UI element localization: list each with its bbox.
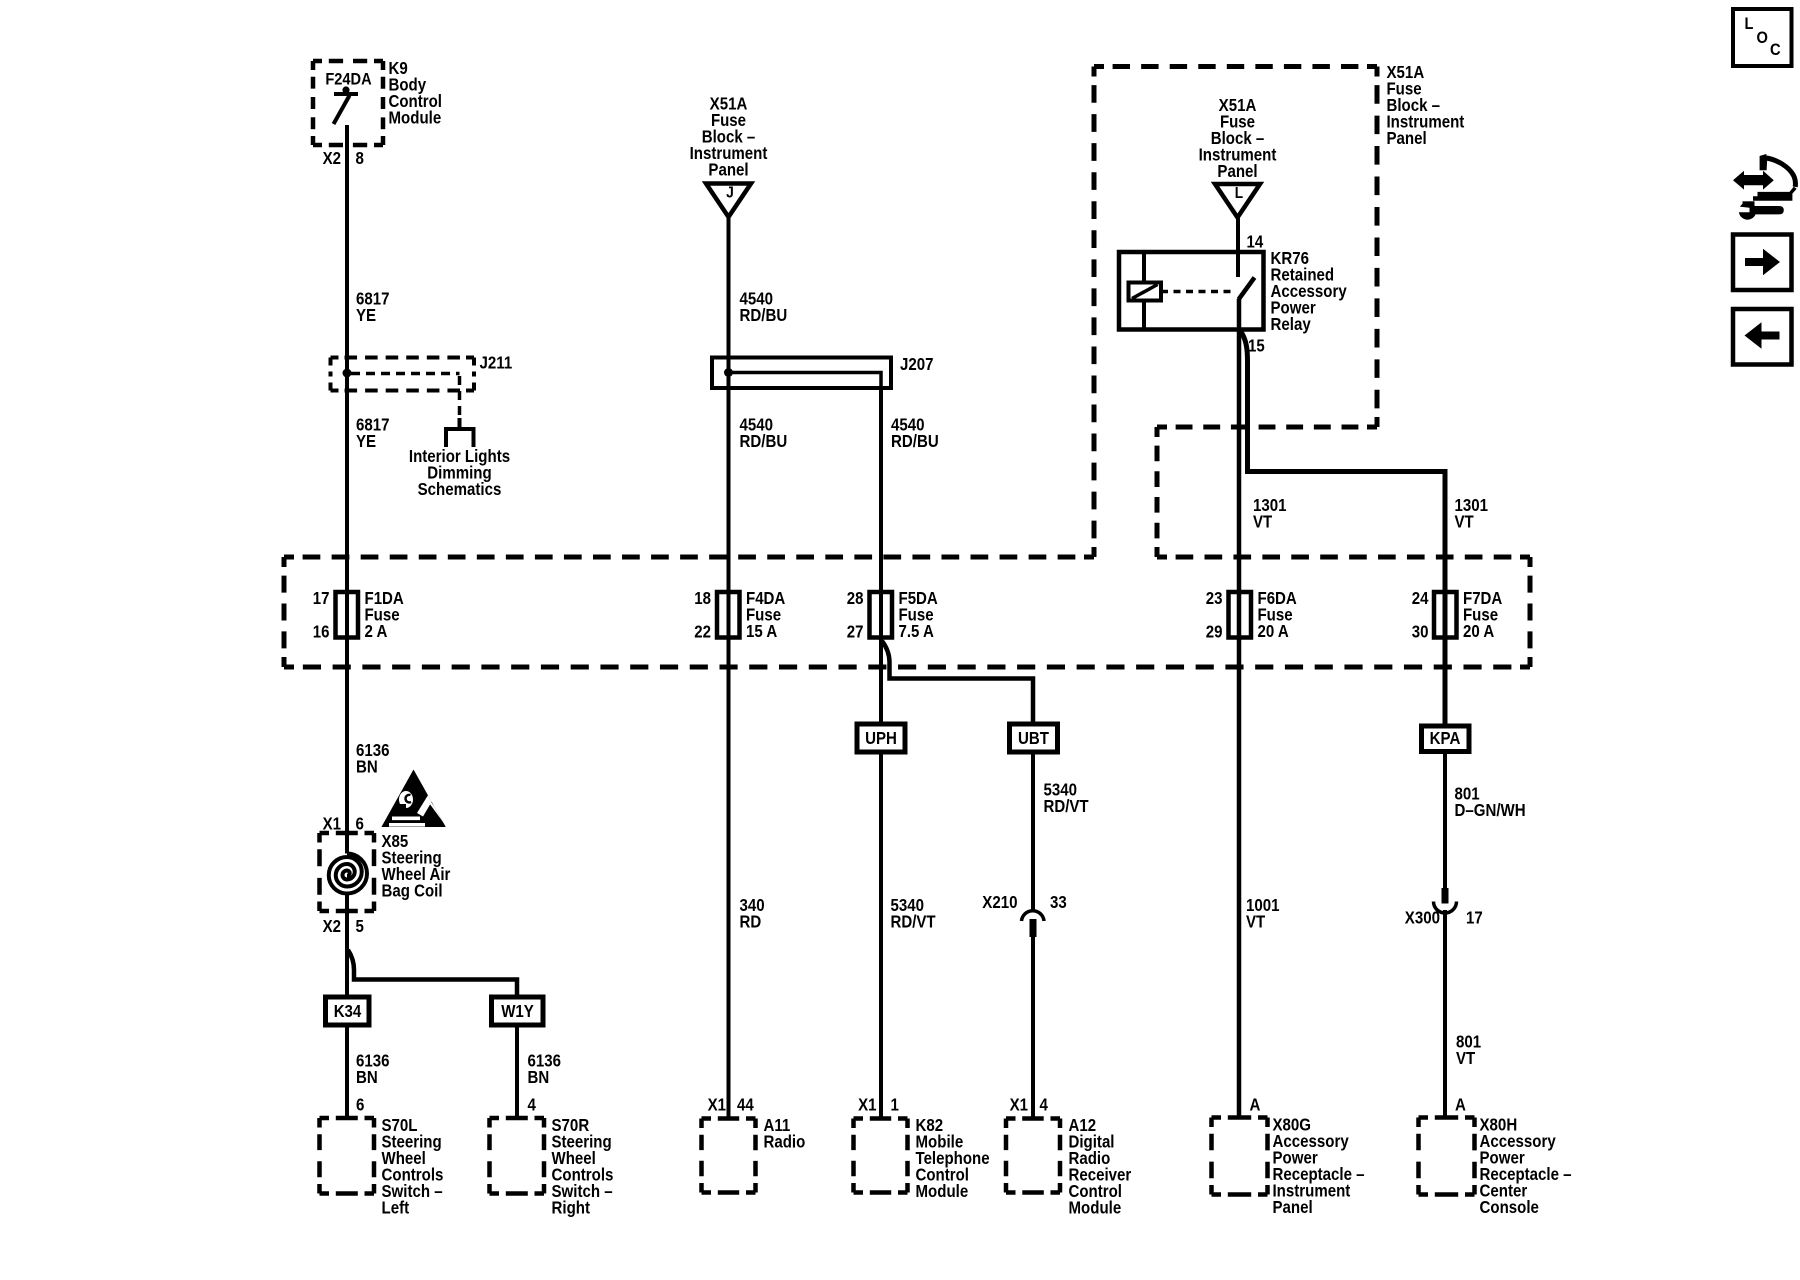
svg-text:D–GN/WH: D–GN/WH: [1455, 800, 1526, 820]
svg-text:27: 27: [847, 622, 864, 642]
svg-text:1: 1: [891, 1095, 900, 1115]
svg-text:Panel: Panel: [1387, 128, 1427, 148]
svg-text:RD/BU: RD/BU: [740, 305, 788, 325]
wire 6136 BN to S70R: [515, 1025, 519, 1118]
svg-text:33: 33: [1050, 892, 1067, 912]
svg-text:L: L: [1745, 14, 1754, 33]
relay coil branch wires: [1142, 252, 1146, 330]
connector K34: [326, 997, 370, 1025]
svg-text:17: 17: [1466, 908, 1483, 928]
svg-text:20 A: 20 A: [1258, 621, 1290, 641]
svg-text:14: 14: [1247, 232, 1264, 252]
svg-text:BN: BN: [528, 1067, 550, 1087]
K82 Mobile Telephone Control Module dashed box: [854, 1119, 908, 1193]
svg-text:X210: X210: [982, 892, 1017, 912]
junction dot J207: [724, 368, 733, 377]
svg-text:Console: Console: [1480, 1197, 1540, 1217]
svg-text:X2: X2: [323, 916, 342, 936]
svg-text:A: A: [1250, 1095, 1261, 1115]
svg-text:6: 6: [356, 1095, 365, 1115]
svg-text:KPA: KPA: [1430, 728, 1461, 748]
svg-text:Radio: Radio: [764, 1132, 806, 1152]
svg-text:L: L: [1235, 185, 1244, 202]
svg-text:4: 4: [528, 1095, 537, 1115]
svg-text:Panel: Panel: [1273, 1197, 1313, 1217]
svg-text:20 A: 20 A: [1463, 621, 1495, 641]
svg-text:Panel: Panel: [1217, 161, 1257, 181]
airbag warning triangle: [381, 770, 446, 828]
relay coil: [1129, 283, 1162, 301]
connector KPA: [1422, 726, 1470, 752]
X85 Steering Wheel Air Bag Coil dashed box: [320, 833, 375, 911]
off-page triangle L: [1215, 184, 1260, 218]
svg-text:22: 22: [694, 622, 711, 642]
wire 1301 VT / 1001 VT from relay through F6DA to X80G: [1237, 299, 1242, 1118]
connector UBT: [1010, 724, 1058, 752]
svg-text:X1: X1: [1010, 1095, 1029, 1115]
svg-text:Left: Left: [382, 1198, 410, 1218]
svg-text:15: 15: [1248, 336, 1265, 356]
svg-text:Module: Module: [916, 1181, 969, 1201]
svg-text:7.5 A: 7.5 A: [899, 621, 935, 641]
svg-text:Panel: Panel: [708, 160, 748, 180]
fuse F7DA: [1434, 592, 1457, 638]
previous page arrow box: [1733, 309, 1792, 365]
wire from air bag coil to K34: [345, 894, 349, 998]
svg-text:O: O: [1757, 28, 1768, 47]
svg-text:C: C: [1770, 40, 1781, 59]
svg-text:J: J: [726, 185, 734, 202]
relay switch blade: [1239, 278, 1255, 300]
fuse F4DA: [717, 592, 740, 638]
svg-text:28: 28: [847, 588, 864, 608]
coil spiral X85: [329, 854, 367, 894]
svg-text:Relay: Relay: [1271, 314, 1311, 334]
svg-text:RD/BU: RD/BU: [891, 431, 939, 451]
svg-text:X1: X1: [708, 1095, 727, 1115]
X51A fuse block dashed outline: [284, 67, 1530, 668]
wire branch from F5DA to UBT: [882, 641, 1033, 724]
fuse F6DA: [1229, 592, 1252, 638]
svg-text:44: 44: [737, 1095, 754, 1115]
svg-text:Module: Module: [1069, 1198, 1122, 1218]
svg-text:23: 23: [1206, 588, 1223, 608]
svg-text:2 A: 2 A: [365, 621, 388, 641]
svg-text:VT: VT: [1246, 912, 1265, 932]
svg-text:Bag Coil: Bag Coil: [382, 881, 443, 901]
svg-text:RD/VT: RD/VT: [891, 912, 936, 932]
svg-text:BN: BN: [356, 757, 378, 777]
off-page triangle J: [706, 184, 751, 218]
wire 801 VT from X300 to X80H: [1443, 910, 1447, 1118]
svg-text:X2: X2: [323, 148, 342, 168]
LOC reference box: [1733, 9, 1792, 66]
svg-text:Module: Module: [389, 108, 442, 128]
svg-text:4: 4: [1040, 1095, 1049, 1115]
svg-text:BN: BN: [356, 1067, 378, 1087]
off-page bracket (interior lights dimming): [446, 418, 474, 447]
svg-text:6: 6: [356, 814, 365, 834]
svg-text:18: 18: [694, 588, 711, 608]
fuse F1DA: [336, 592, 359, 638]
svg-text:30: 30: [1412, 622, 1429, 642]
svg-text:15 A: 15 A: [746, 621, 778, 641]
svg-text:A: A: [1455, 1095, 1466, 1115]
dashed branch from J211 to dimming schematics: [351, 374, 460, 421]
connector W1Y: [492, 997, 544, 1025]
wire 801 D-GN/WH from KPA to X300: [1443, 752, 1447, 889]
svg-text:UBT: UBT: [1018, 728, 1049, 748]
svg-text:24: 24: [1412, 588, 1429, 608]
wire 6817 YE / 6136 BN from BCM through F1DA to air bag coil: [345, 125, 349, 854]
svg-text:F24DA: F24DA: [325, 70, 371, 89]
svg-text:5: 5: [356, 916, 365, 936]
X80G Accessory Power Receptacle dashed box: [1212, 1118, 1268, 1195]
svg-text:YE: YE: [356, 305, 376, 325]
svg-text:RD/VT: RD/VT: [1044, 796, 1089, 816]
splice pack J207: [712, 358, 891, 389]
X80H Accessory Power Receptacle dashed box: [1419, 1118, 1475, 1195]
in-line connector X300 pin 17: [1434, 888, 1457, 913]
diagnostic icon (arrows and wrench): [1733, 154, 1797, 220]
S70L Steering Wheel Controls Switch - Left dashed box: [320, 1118, 375, 1194]
fuse F5DA: [870, 592, 893, 638]
svg-text:X1: X1: [858, 1095, 877, 1115]
svg-text:VT: VT: [1456, 1048, 1475, 1068]
svg-text:8: 8: [356, 148, 365, 168]
svg-text:17: 17: [313, 588, 330, 608]
svg-text:29: 29: [1206, 622, 1223, 642]
wire 5340 RD/VT from UPH to K82: [879, 752, 883, 1119]
next page arrow box: [1733, 235, 1792, 291]
wire 4540 RD/BU / 340 RD from J through J207 and F4DA to radio: [727, 217, 731, 1119]
svg-text:YE: YE: [356, 431, 376, 451]
svg-text:VT: VT: [1253, 512, 1272, 532]
svg-text:K34: K34: [334, 1001, 362, 1021]
svg-text:J211: J211: [480, 353, 513, 373]
wire 5340 RD/VT from UBT to X210: [1031, 752, 1035, 910]
svg-text:X300: X300: [1405, 908, 1440, 928]
wire 5340 RD/VT from X210 to A12: [1031, 937, 1035, 1119]
relay dashed actuator link: [1161, 290, 1234, 294]
splice J211 dashed box: [331, 358, 475, 391]
svg-text:VT: VT: [1455, 512, 1474, 532]
svg-text:RD/BU: RD/BU: [740, 431, 788, 451]
svg-text:16: 16: [313, 622, 330, 642]
wire 4540 RD/BU / 5340 RD/VT from J207 through F5DA to UPH: [879, 388, 883, 724]
svg-text:Right: Right: [552, 1198, 591, 1218]
svg-text:X1: X1: [323, 814, 342, 834]
svg-text:RD: RD: [740, 912, 762, 932]
wire branch from relay to F7DA and KPA: [1241, 331, 1446, 726]
relay KR76 box: [1119, 252, 1264, 330]
in-line connector X210 pin 33: [1022, 911, 1045, 937]
svg-text:W1Y: W1Y: [501, 1001, 534, 1021]
wire 6136 BN to S70L: [345, 1025, 349, 1118]
S70R Steering Wheel Controls Switch - Right dashed box: [490, 1118, 545, 1194]
connector UPH: [857, 724, 905, 752]
svg-text:Schematics: Schematics: [418, 479, 502, 499]
A12 Digital Radio Receiver Control Module dashed box: [1006, 1119, 1060, 1193]
svg-text:J207: J207: [900, 354, 934, 374]
J207 internal branch: [729, 373, 882, 391]
switch F24DA inside BCM: [334, 86, 359, 124]
svg-text:UPH: UPH: [865, 728, 897, 748]
wire from L to relay pin 14: [1236, 218, 1240, 278]
wire branch to W1Y: [348, 950, 517, 997]
K9 Body Control Module dashed box: [313, 61, 383, 145]
A11 Radio dashed box: [702, 1119, 756, 1193]
junction dot J211: [343, 369, 352, 378]
